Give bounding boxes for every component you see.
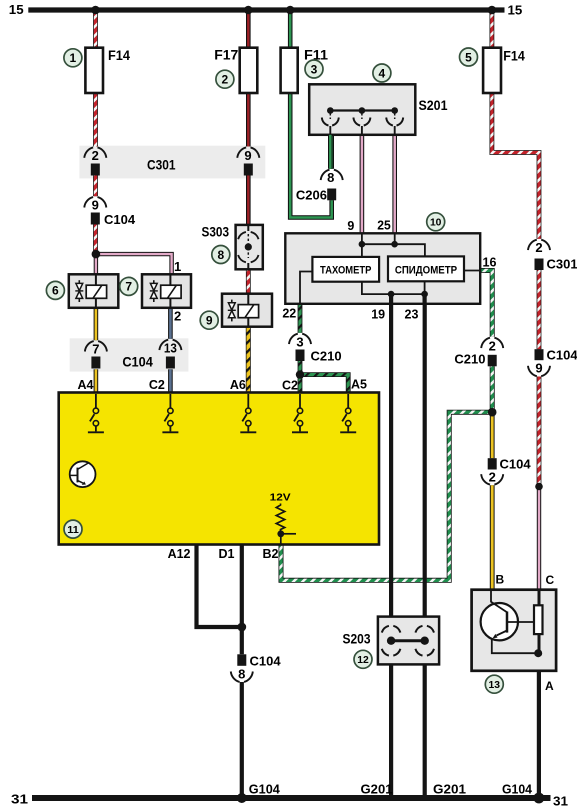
svg-text:9: 9 bbox=[206, 314, 213, 328]
svg-text:C104: C104 bbox=[122, 354, 153, 370]
svg-text:13: 13 bbox=[489, 679, 501, 691]
svg-text:2: 2 bbox=[92, 148, 99, 163]
svg-text:1: 1 bbox=[174, 259, 181, 274]
svg-text:C2: C2 bbox=[282, 379, 298, 393]
svg-text:C104: C104 bbox=[547, 348, 577, 363]
svg-text:2: 2 bbox=[222, 73, 229, 87]
svg-text:8: 8 bbox=[327, 170, 334, 185]
svg-text:A: A bbox=[545, 679, 554, 693]
svg-text:2: 2 bbox=[489, 339, 496, 354]
svg-text:16: 16 bbox=[483, 256, 497, 270]
svg-text:A5: A5 bbox=[351, 378, 367, 392]
svg-text:8: 8 bbox=[238, 667, 245, 682]
svg-text:A4: A4 bbox=[78, 378, 94, 392]
svg-text:A6: A6 bbox=[230, 378, 246, 392]
svg-text:S201: S201 bbox=[419, 98, 448, 113]
svg-text:12: 12 bbox=[357, 654, 369, 666]
svg-text:2: 2 bbox=[174, 309, 181, 324]
svg-text:C: C bbox=[546, 573, 555, 587]
svg-text:C210: C210 bbox=[454, 352, 485, 367]
svg-text:22: 22 bbox=[282, 307, 296, 321]
svg-text:C301: C301 bbox=[547, 257, 577, 272]
svg-text:G201: G201 bbox=[361, 782, 393, 797]
svg-text:10: 10 bbox=[430, 217, 442, 229]
svg-text:5: 5 bbox=[465, 50, 472, 64]
svg-text:C206: C206 bbox=[296, 188, 327, 203]
svg-text:23: 23 bbox=[405, 308, 419, 322]
svg-text:G201: G201 bbox=[433, 782, 466, 797]
svg-text:15: 15 bbox=[508, 4, 523, 18]
svg-text:11: 11 bbox=[67, 524, 79, 536]
svg-text:12V: 12V bbox=[270, 492, 291, 504]
svg-text:1: 1 bbox=[70, 51, 77, 65]
svg-text:15: 15 bbox=[9, 3, 24, 17]
svg-text:F17: F17 bbox=[214, 48, 238, 63]
svg-text:8: 8 bbox=[217, 248, 224, 262]
svg-text:G104: G104 bbox=[249, 782, 281, 797]
svg-text:2: 2 bbox=[535, 240, 542, 255]
svg-text:C210: C210 bbox=[311, 349, 342, 364]
svg-text:31: 31 bbox=[553, 795, 568, 809]
svg-text:13: 13 bbox=[164, 341, 177, 356]
svg-text:ТАХОМЕТР: ТАХОМЕТР bbox=[320, 265, 371, 277]
svg-text:9: 9 bbox=[244, 148, 251, 163]
svg-text:C104: C104 bbox=[500, 457, 532, 472]
svg-text:19: 19 bbox=[371, 308, 385, 322]
svg-text:D1: D1 bbox=[219, 547, 235, 561]
svg-text:F14: F14 bbox=[503, 49, 525, 64]
svg-text:25: 25 bbox=[377, 219, 391, 233]
svg-text:3: 3 bbox=[311, 62, 318, 76]
svg-text:2: 2 bbox=[489, 470, 496, 485]
svg-text:9: 9 bbox=[347, 219, 354, 233]
svg-text:3: 3 bbox=[296, 335, 303, 350]
svg-text:9: 9 bbox=[535, 361, 542, 376]
svg-text:7: 7 bbox=[125, 280, 132, 294]
svg-text:6: 6 bbox=[52, 284, 59, 298]
svg-text:A12: A12 bbox=[168, 547, 191, 561]
svg-text:C2: C2 bbox=[149, 378, 165, 392]
svg-text:S203: S203 bbox=[343, 632, 371, 647]
svg-text:G104: G104 bbox=[502, 782, 533, 797]
svg-text:C301: C301 bbox=[147, 156, 176, 172]
svg-text:F14: F14 bbox=[108, 48, 130, 63]
svg-text:31: 31 bbox=[11, 793, 28, 807]
svg-text:9: 9 bbox=[92, 198, 99, 213]
svg-text:4: 4 bbox=[379, 66, 386, 80]
svg-text:C104: C104 bbox=[250, 654, 282, 669]
svg-text:S303: S303 bbox=[202, 224, 230, 239]
svg-text:B: B bbox=[496, 573, 505, 587]
svg-text:C104: C104 bbox=[104, 212, 136, 227]
svg-text:7: 7 bbox=[92, 342, 99, 357]
svg-text:СПИДОМЕТР: СПИДОМЕТР bbox=[395, 265, 457, 277]
svg-text:B2: B2 bbox=[263, 547, 279, 561]
